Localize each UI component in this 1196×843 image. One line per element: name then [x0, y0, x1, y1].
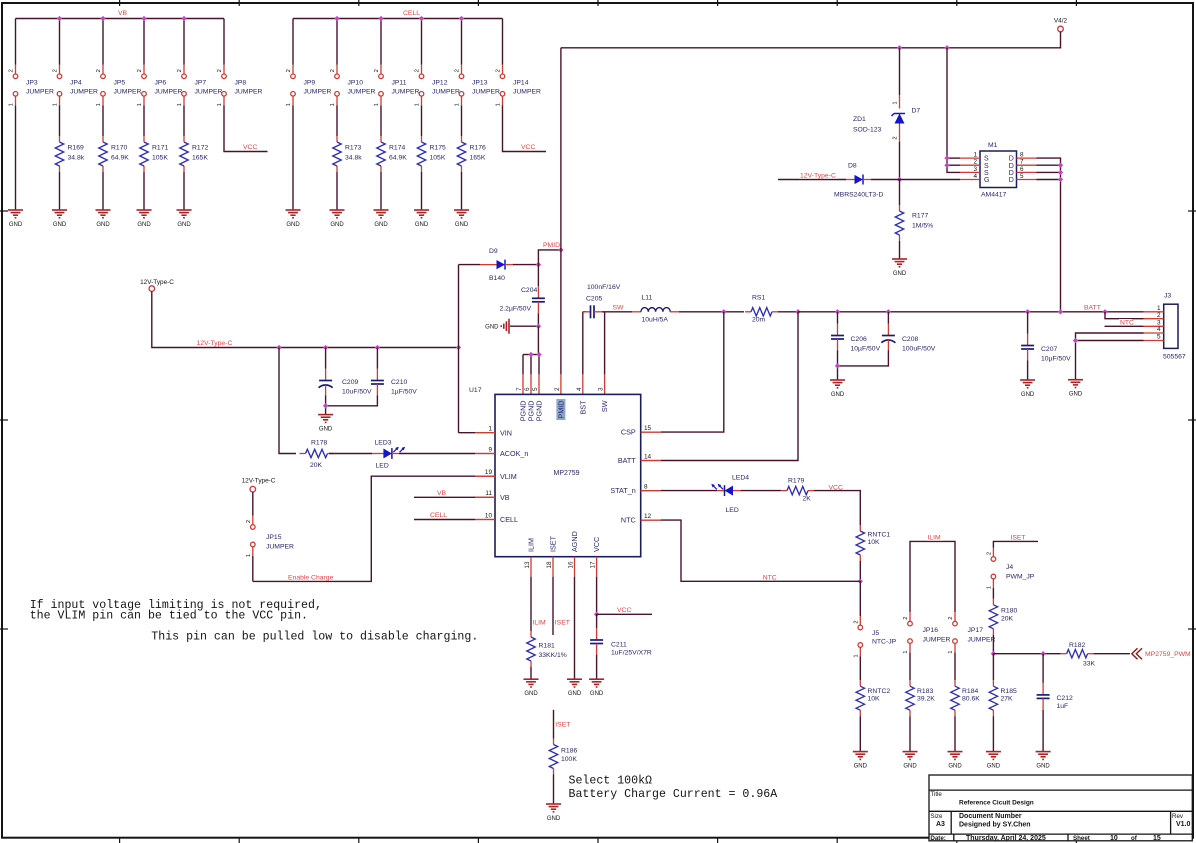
- svg-text:Title: Title: [930, 791, 942, 798]
- wire JP7 to resistor: [183, 105, 185, 136]
- jumper JP14: [500, 74, 505, 79]
- resistor R179 2K: [781, 490, 787, 492]
- ground: [524, 678, 539, 680]
- resistor R186 100K: [553, 739, 555, 745]
- svg-text:GND: GND: [831, 392, 845, 398]
- svg-text:LED3: LED3: [375, 439, 392, 446]
- wire port to JP15: [252, 492, 254, 516]
- svg-text:2: 2: [330, 69, 336, 72]
- resistor R170 64.9K: [102, 136, 104, 142]
- ground: [853, 751, 868, 753]
- ground: [8, 209, 23, 211]
- wire R185 branch: [992, 654, 994, 681]
- svg-text:of: of: [1131, 835, 1138, 842]
- svg-text:15: 15: [1153, 835, 1161, 842]
- svg-text:1: 1: [286, 103, 292, 106]
- svg-text:34.8k: 34.8k: [345, 155, 362, 162]
- svg-text:1: 1: [893, 101, 899, 104]
- svg-text:MP2759_PWM: MP2759_PWM: [1145, 651, 1191, 658]
- node junction D9/PMID: [536, 262, 541, 267]
- svg-text:D9: D9: [489, 248, 498, 255]
- svg-text:SOD-123: SOD-123: [853, 127, 882, 134]
- svg-text:2: 2: [987, 552, 993, 555]
- svg-text:GND: GND: [137, 222, 151, 228]
- node junctions on 12V run: [276, 345, 281, 350]
- svg-text:ISET: ISET: [555, 721, 570, 728]
- wire R170 to GND: [102, 172, 104, 210]
- ground: [286, 209, 301, 211]
- svg-text:1: 1: [948, 650, 954, 653]
- wire GND tap: [510, 325, 538, 327]
- ground: [1036, 751, 1051, 753]
- diode D9 B140: [480, 264, 497, 266]
- svg-text:1: 1: [488, 426, 492, 433]
- svg-text:Reference Cicuit Design: Reference Cicuit Design: [959, 799, 1034, 806]
- ground: [454, 209, 469, 211]
- svg-text:JP6: JP6: [155, 80, 167, 87]
- svg-text:GND: GND: [415, 222, 429, 228]
- svg-text:LED: LED: [726, 507, 739, 514]
- svg-text:Enable Charge: Enable Charge: [288, 574, 334, 581]
- ground: [546, 803, 561, 805]
- svg-text:C212: C212: [1057, 695, 1073, 702]
- svg-text:ILIM: ILIM: [527, 538, 536, 552]
- svg-text:16: 16: [568, 561, 575, 569]
- net stub 12V-Type-C to D8: [778, 179, 846, 181]
- wire R178 to LED3: [329, 453, 372, 455]
- node junction C212: [1040, 651, 1045, 656]
- svg-text:R180: R180: [1001, 607, 1017, 614]
- svg-text:2: 2: [9, 69, 15, 72]
- ground: [903, 751, 918, 753]
- pin 9 ACOK_n: [475, 453, 495, 455]
- svg-text:BATT: BATT: [1084, 304, 1101, 311]
- svg-text:G: G: [984, 177, 989, 184]
- svg-text:D: D: [1009, 156, 1014, 163]
- resistor R175 105K: [421, 136, 423, 142]
- node M1 drain junctions: [1058, 163, 1063, 168]
- svg-text:64.9K: 64.9K: [111, 155, 129, 162]
- svg-text:10µF/50V: 10µF/50V: [1041, 355, 1071, 362]
- node M1 source junctions: [944, 155, 949, 160]
- svg-text:5: 5: [532, 387, 539, 391]
- svg-text:JP12: JP12: [432, 80, 448, 87]
- capacitor C211 1uF/25V/X7R: [596, 614, 598, 628]
- port 12V-Type-C (JP15): [250, 486, 256, 492]
- svg-text:7: 7: [516, 387, 523, 391]
- svg-text:GND: GND: [893, 271, 907, 277]
- wire J4 to R180: [992, 588, 994, 599]
- wire JP11 to resistor: [380, 105, 382, 136]
- resistor R171 105K: [143, 136, 145, 142]
- wire R185 to GND: [992, 716, 994, 751]
- svg-text:JUMPER: JUMPER: [348, 89, 376, 96]
- node junction J3 gnd: [1073, 338, 1078, 343]
- svg-text:NTC: NTC: [621, 516, 636, 525]
- svg-text:1: 1: [455, 103, 461, 106]
- svg-text:7: 7: [1020, 159, 1024, 166]
- svg-text:12V-Type-C: 12V-Type-C: [140, 279, 174, 286]
- wire JP14 to VCC: [503, 105, 547, 151]
- svg-text:GND: GND: [547, 816, 561, 822]
- svg-text:J4: J4: [1006, 564, 1013, 571]
- port 12V-Type-C input: [149, 286, 155, 292]
- svg-text:CELL: CELL: [500, 515, 518, 524]
- svg-text:33KK/1%: 33KK/1%: [539, 652, 567, 659]
- svg-text:505567: 505567: [1163, 354, 1186, 361]
- ground: [177, 209, 192, 211]
- svg-text:1: 1: [53, 103, 59, 106]
- svg-text:JUMPER: JUMPER: [26, 89, 54, 96]
- svg-text:2: 2: [217, 69, 223, 72]
- svg-text:M1: M1: [988, 142, 998, 149]
- svg-text:39.2K: 39.2K: [917, 695, 935, 702]
- wire C212 to GND: [1042, 710, 1044, 752]
- svg-text:RS1: RS1: [752, 294, 765, 301]
- svg-text:R177: R177: [912, 213, 928, 220]
- port V4/2: [1058, 26, 1064, 32]
- wire NTC net from pin 12: [641, 519, 661, 521]
- svg-text:NTC: NTC: [1120, 319, 1134, 326]
- svg-text:105K: 105K: [152, 155, 168, 162]
- svg-text:R172: R172: [192, 145, 208, 152]
- svg-text:2: 2: [455, 69, 461, 72]
- svg-text:JP9: JP9: [304, 80, 316, 87]
- svg-text:165K: 165K: [470, 155, 486, 162]
- jumper JP12: [419, 74, 424, 79]
- svg-text:the VLIM pin can be tied to th: the VLIM pin can be tied to the VCC pin.: [30, 610, 308, 623]
- pin 15 CSP: [641, 431, 661, 433]
- wire VIN to D9: [459, 264, 481, 266]
- svg-text:LED4: LED4: [732, 474, 749, 481]
- svg-text:This pin can be pulled low to: This pin can be pulled low to disable ch…: [151, 630, 478, 643]
- wire R184 to GND: [954, 716, 956, 751]
- node junction PMID vertical: [558, 247, 563, 252]
- wire BATT line: [798, 311, 1144, 313]
- svg-text:Date:: Date:: [930, 835, 945, 842]
- wire R186 to GND: [553, 775, 555, 805]
- capacitor C205 100nF/16V: [583, 311, 591, 313]
- svg-text:JP8: JP8: [235, 80, 247, 87]
- wire C209/C210 to GND: [326, 396, 378, 406]
- wire ACOK_n net: [475, 453, 495, 455]
- svg-text:JUMPER: JUMPER: [432, 89, 460, 96]
- svg-text:2: 2: [973, 159, 977, 166]
- resistor R178 20K: [300, 453, 306, 455]
- resistor RS1 20m: [745, 311, 751, 313]
- svg-text:33K: 33K: [1083, 661, 1096, 668]
- wire R169 to GND: [59, 172, 61, 210]
- svg-text:JP15: JP15: [266, 534, 282, 541]
- svg-text:R186: R186: [561, 747, 577, 754]
- wire VIN vertical: [458, 265, 460, 433]
- svg-text:JUMPER: JUMPER: [513, 89, 541, 96]
- svg-text:64.9K: 64.9K: [389, 155, 407, 162]
- svg-text:8: 8: [1020, 152, 1024, 159]
- svg-text:8: 8: [644, 483, 648, 490]
- svg-text:10: 10: [485, 512, 493, 519]
- pin 10 CELL: [475, 519, 495, 521]
- svg-text:R178: R178: [311, 439, 327, 446]
- svg-text:34.8k: 34.8k: [68, 155, 85, 162]
- node PGND junctions: [528, 352, 533, 357]
- svg-text:5: 5: [1020, 173, 1024, 180]
- ground: [374, 209, 389, 211]
- svg-text:JUMPER: JUMPER: [304, 89, 332, 96]
- svg-text:19: 19: [485, 469, 493, 476]
- svg-text:D: D: [1009, 170, 1014, 177]
- svg-text:5: 5: [1157, 334, 1161, 341]
- svg-text:MP2759: MP2759: [554, 470, 580, 477]
- jumper JP13: [459, 74, 464, 79]
- svg-text:GND: GND: [53, 222, 67, 228]
- svg-text:18: 18: [546, 561, 553, 569]
- svg-text:2: 2: [53, 69, 59, 72]
- node junction VCC: [594, 612, 599, 617]
- wire C211 to GND: [596, 655, 598, 679]
- svg-text:4: 4: [576, 387, 583, 391]
- wire C204 to GND tap: [537, 313, 539, 326]
- svg-text:Size: Size: [930, 813, 943, 820]
- svg-text:10: 10: [1110, 835, 1118, 842]
- wire R179 to VCC corner: [814, 491, 860, 525]
- svg-text:JUMPER: JUMPER: [968, 637, 996, 644]
- svg-text:JP3: JP3: [26, 80, 38, 87]
- svg-text:ILIM: ILIM: [928, 535, 942, 542]
- svg-text:15: 15: [644, 425, 652, 432]
- svg-text:2: 2: [246, 520, 252, 523]
- svg-text:2: 2: [903, 616, 909, 619]
- svg-text:1uF: 1uF: [1057, 703, 1069, 710]
- ground: [52, 209, 67, 211]
- svg-text:GND: GND: [1021, 392, 1035, 398]
- svg-text:ZD1: ZD1: [853, 116, 866, 123]
- node junction C209 GND: [323, 403, 328, 408]
- svg-text:GND: GND: [455, 222, 469, 228]
- wire LED3 to pin 9: [399, 453, 475, 455]
- svg-text:1µF/50V: 1µF/50V: [391, 389, 417, 396]
- svg-text:100nF/16V: 100nF/16V: [587, 284, 621, 291]
- svg-text:6: 6: [1020, 166, 1024, 173]
- capacitor C209 10uF/50V: [325, 348, 327, 369]
- wire BST vertical: [582, 312, 584, 375]
- net label 12V-Type-C (D8): [799, 172, 836, 178]
- svg-text:D: D: [1009, 163, 1014, 170]
- jumper JP3: [13, 74, 18, 79]
- node junction C204/GND: [536, 324, 541, 329]
- resistor RNTC1 10K: [859, 525, 861, 531]
- svg-text:R170: R170: [111, 145, 127, 152]
- jumper J5 NTC-JP: [858, 625, 863, 630]
- wire JP3 to GND: [15, 105, 17, 210]
- wire PMID corner: [538, 250, 561, 265]
- node rail junction at M1 sources: [944, 45, 949, 50]
- svg-text:GND: GND: [1069, 392, 1083, 398]
- wire R176 to GND: [461, 172, 463, 210]
- svg-text:GND: GND: [524, 691, 538, 697]
- svg-text:1uF/25V/X7R: 1uF/25V/X7R: [611, 649, 652, 656]
- svg-text:VCC: VCC: [243, 144, 257, 151]
- capacitor C208 100uF/50V: [887, 312, 889, 324]
- net label VB: [436, 490, 445, 496]
- zener ZD1 SOD-123 (D7): [899, 95, 901, 109]
- wire STAT_n net: [641, 490, 661, 492]
- svg-text:Battery Charge Current = 0.96A: Battery Charge Current = 0.96A: [569, 788, 778, 801]
- svg-text:CELL: CELL: [430, 512, 447, 519]
- svg-text:D8: D8: [848, 163, 857, 170]
- wire D8 to M1 gate: [871, 179, 960, 181]
- LED LED4: [717, 490, 725, 492]
- wire J5 to RNTC2: [859, 657, 861, 681]
- svg-text:ACOK_n: ACOK_n: [500, 449, 528, 458]
- pin 13 ILIM: [530, 557, 532, 577]
- wire JP12 to resistor: [421, 105, 423, 136]
- wire JP13 to resistor: [461, 105, 463, 136]
- title block: [929, 775, 1192, 841]
- wire M1 drain bus to BATT: [1037, 158, 1061, 311]
- svg-text:1M/5%: 1M/5%: [912, 223, 933, 230]
- svg-text:1: 1: [217, 103, 223, 106]
- wire R181 to GND: [530, 667, 532, 679]
- node junction PWM: [991, 651, 996, 656]
- svg-text:2: 2: [177, 69, 183, 72]
- svg-text:MBRS240LT3-D: MBRS240LT3-D: [834, 192, 883, 199]
- svg-text:JP14: JP14: [513, 80, 529, 87]
- wire JP10 to resistor: [336, 105, 338, 136]
- wire M1 source bus: [947, 48, 960, 173]
- wire ZD1 to D8 line: [899, 142, 901, 180]
- svg-text:1: 1: [374, 103, 380, 106]
- wire JP15 to Enable Charge: [252, 556, 254, 581]
- jumper JP7: [182, 74, 187, 79]
- node junction C206 GND: [835, 363, 840, 368]
- svg-text:10µF/50V: 10µF/50V: [851, 345, 881, 352]
- resistor R169 34.8k: [59, 136, 61, 142]
- net label NTC (J3): [1119, 319, 1132, 325]
- resistor RNTC2 10K: [859, 680, 861, 686]
- svg-text:C204: C204: [521, 287, 537, 294]
- svg-text:11: 11: [485, 490, 492, 497]
- svg-text:GND: GND: [568, 691, 582, 697]
- wire BATT vertical to pin 14: [661, 312, 798, 461]
- off-page connector MP2759_PWM: [1132, 648, 1142, 659]
- svg-text:R182: R182: [1069, 642, 1085, 649]
- net CELL stub: [475, 519, 495, 521]
- net label SW: [612, 304, 621, 310]
- svg-text:GND: GND: [485, 324, 499, 330]
- pin 8 STAT_n: [641, 490, 661, 492]
- svg-text:JP5: JP5: [114, 80, 126, 87]
- jumper JP10: [335, 74, 340, 79]
- node CELL junctions: [334, 16, 339, 21]
- svg-text:VIN: VIN: [500, 428, 512, 437]
- wire SW node: [602, 311, 632, 313]
- svg-text:20K: 20K: [310, 462, 323, 469]
- svg-text:Rev: Rev: [1172, 813, 1184, 820]
- transistor M1 AM4417: [980, 151, 1017, 188]
- wire ISET stub: [552, 577, 554, 635]
- svg-text:3: 3: [598, 387, 605, 391]
- resistor R182 33K: [1061, 653, 1067, 655]
- pin stubs PGND 7 6 5: [522, 374, 524, 394]
- svg-text:S: S: [984, 156, 989, 163]
- svg-text:VB: VB: [118, 10, 128, 17]
- svg-text:R175: R175: [430, 145, 446, 152]
- svg-text:JUMPER: JUMPER: [266, 544, 294, 551]
- jumper JP11: [379, 74, 384, 79]
- svg-text:9: 9: [488, 446, 492, 453]
- wire AGND to GND: [574, 577, 576, 680]
- svg-text:V1.0: V1.0: [1176, 821, 1191, 828]
- inductor L11 10uH/5A: [632, 311, 641, 313]
- svg-text:GND: GND: [948, 764, 962, 770]
- wire R172 to GND: [183, 172, 185, 210]
- resistor R183 39.2K: [909, 680, 911, 686]
- svg-text:NTC-JP: NTC-JP: [872, 639, 897, 646]
- svg-text:1: 1: [246, 554, 252, 557]
- svg-text:12V-Type-C: 12V-Type-C: [242, 478, 276, 485]
- wire BATT to J3 pin 2: [1105, 312, 1144, 319]
- svg-text:17: 17: [590, 561, 597, 569]
- node junctions BATT line: [835, 309, 840, 314]
- node VB junctions: [57, 16, 62, 21]
- svg-text:1: 1: [854, 654, 860, 657]
- svg-text:2: 2: [374, 69, 380, 72]
- ground: [96, 209, 111, 211]
- ground: [330, 209, 345, 211]
- ground: [567, 678, 582, 680]
- capacitor C207 10uF/50V: [1027, 312, 1029, 334]
- svg-text:L11: L11: [642, 294, 653, 301]
- svg-text:10uH/5A: 10uH/5A: [642, 316, 669, 323]
- wire J3 pins 4/5 to GND: [1076, 333, 1144, 341]
- wire RNTC2 to GND: [859, 716, 861, 751]
- net label BATT: [1083, 304, 1099, 310]
- svg-text:JUMPER: JUMPER: [472, 89, 500, 96]
- net label NTC (mid): [762, 574, 775, 580]
- svg-text:JP7: JP7: [195, 80, 207, 87]
- wire PGND bus: [523, 354, 539, 356]
- jumper JP8: [222, 74, 227, 79]
- wire R175 to GND: [421, 172, 423, 210]
- resistor R185 27K: [992, 680, 994, 686]
- svg-text:2: 2: [415, 69, 421, 72]
- svg-text:20m: 20m: [752, 316, 766, 323]
- wire D9 to PMID node: [513, 264, 538, 266]
- wire JP16 to R183: [909, 653, 911, 681]
- svg-text:12: 12: [644, 513, 652, 520]
- svg-text:JUMPER: JUMPER: [923, 637, 951, 644]
- svg-text:12V-Type-C: 12V-Type-C: [800, 173, 836, 180]
- wire JP4 to resistor: [59, 105, 61, 136]
- svg-text:RNTC2: RNTC2: [868, 688, 891, 695]
- svg-text:4: 4: [973, 173, 977, 180]
- wire JP17 to R184: [954, 653, 956, 681]
- wire R174 to GND: [380, 172, 382, 210]
- ground: [318, 414, 333, 416]
- node junction CSP: [721, 309, 726, 314]
- resistor R172 165K: [183, 136, 185, 142]
- jumper JP16: [908, 621, 913, 626]
- svg-text:C207: C207: [1041, 346, 1057, 353]
- ground: [948, 751, 963, 753]
- svg-text:SW: SW: [600, 400, 609, 412]
- svg-text:JP11: JP11: [392, 80, 407, 87]
- svg-text:CSP: CSP: [621, 428, 636, 437]
- svg-text:2: 2: [137, 69, 143, 72]
- svg-text:JUMPER: JUMPER: [235, 89, 263, 96]
- svg-text:VCC: VCC: [592, 537, 601, 552]
